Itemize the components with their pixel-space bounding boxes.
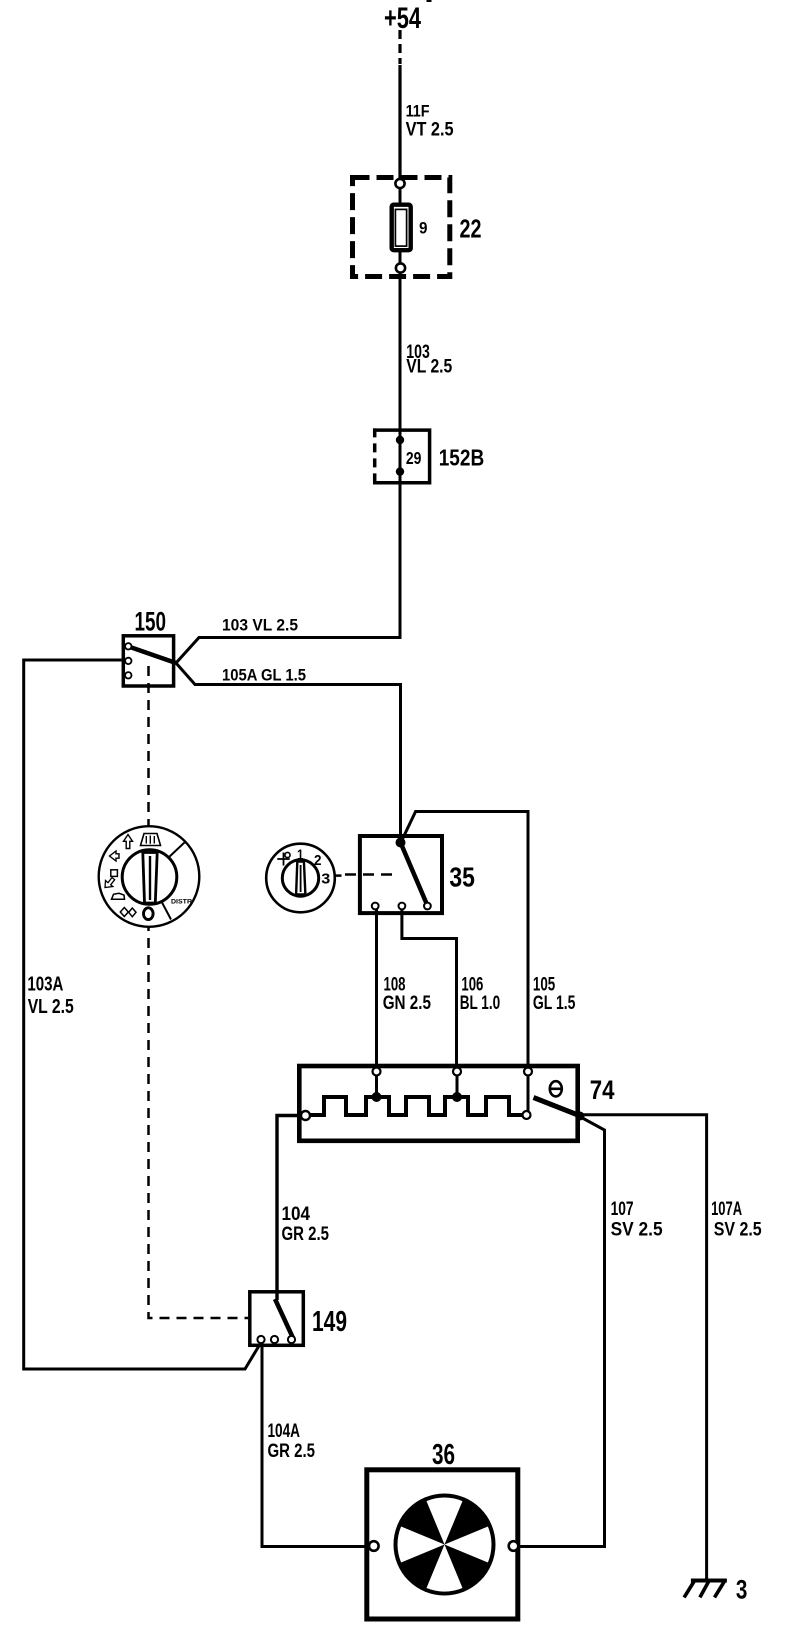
dial 0 position mark bbox=[144, 908, 154, 920]
resistor top pin a bbox=[373, 1068, 381, 1076]
fan blade white sector right bbox=[445, 1527, 492, 1563]
fan motor 36 box bbox=[367, 1470, 518, 1619]
svg-text:22: 22 bbox=[460, 214, 482, 244]
resistor left pin bbox=[301, 1111, 310, 1120]
svg-text:GN 2.5: GN 2.5 bbox=[383, 993, 432, 1014]
svg-text:149: 149 bbox=[312, 1306, 347, 1338]
switch 150 pin c bbox=[125, 672, 131, 678]
fuse element 9 bbox=[392, 205, 411, 251]
fan selector icon fan bbox=[283, 853, 285, 866]
svg-text:SV 2.5: SV 2.5 bbox=[611, 1220, 663, 1241]
fan blade white sector left bbox=[398, 1527, 445, 1563]
svg-text:BL 1.0: BL 1.0 bbox=[460, 993, 501, 1014]
junction node at 74 output bbox=[576, 1112, 585, 1121]
wire 107A from 74 to ground 3 bbox=[580, 1115, 707, 1580]
svg-text:11F: 11F bbox=[406, 102, 430, 120]
ground symbol 3 bbox=[691, 1579, 727, 1583]
svg-text:104: 104 bbox=[282, 1204, 311, 1225]
dial divider line upper right bbox=[168, 842, 185, 858]
connector 149 box bbox=[250, 1292, 303, 1346]
dial icon arrow left bbox=[110, 851, 120, 861]
connector 149 pin b bbox=[271, 1336, 278, 1343]
wire 103A loop from switch 150 left to connector 149 bbox=[24, 660, 261, 1369]
wire dashed feed from +54 bbox=[398, 30, 401, 64]
wire 107 from 74 to fan motor 36 bbox=[519, 1118, 605, 1547]
dial divider line lower right bbox=[162, 902, 172, 920]
svg-text:+54: +54 bbox=[384, 2, 421, 35]
fan blade white sector top bbox=[427, 1498, 463, 1545]
svg-text:3: 3 bbox=[321, 870, 330, 887]
switch 35 pin 1 bbox=[372, 903, 379, 910]
pin 29 upper dot of 152B bbox=[396, 436, 404, 444]
switch 150 pin a bbox=[125, 643, 131, 649]
connector 152B box (left edge dashed) bbox=[373, 430, 430, 483]
switch 35 box bbox=[360, 836, 442, 913]
resistor tap vertical to pin 105 bbox=[527, 1068, 530, 1112]
pin top of fuse 22 bbox=[395, 179, 404, 188]
resistor tap vertical to pin 106 bbox=[456, 1068, 459, 1097]
fuse box 22 dashed enclosure bbox=[353, 178, 450, 277]
svg-text:104A: 104A bbox=[268, 1421, 301, 1442]
svg-text:29: 29 bbox=[406, 448, 422, 468]
resistor tap vertical to pin 108 bbox=[375, 1068, 378, 1097]
thermal switch theta symbol bbox=[550, 1081, 562, 1096]
mechanical dashed link from switch 150 down to connector 149 bbox=[149, 666, 249, 1318]
resistor top pin c bbox=[524, 1068, 532, 1076]
dial icon arrow down-left bbox=[105, 878, 115, 888]
wire 11F from +54 to fuse 22 bbox=[398, 65, 401, 180]
svg-text:105A GL 1.5: 105A GL 1.5 bbox=[222, 666, 306, 685]
dial icon diamond pair bbox=[120, 908, 128, 917]
svg-text:GL 1.5: GL 1.5 bbox=[533, 993, 576, 1014]
dial icon arrow up bbox=[124, 835, 133, 849]
wire 105A from switch 150 to switch 35 bbox=[176, 663, 401, 843]
wire 105 from switch 35 common to resistor 74 bbox=[402, 812, 528, 1071]
connector 149 pin c bbox=[288, 1336, 295, 1343]
fan selector mechanical dashed link to switch 35 bbox=[335, 874, 342, 877]
heater control dial outer ring bbox=[99, 826, 200, 927]
resistor element (square wave) bbox=[309, 1097, 522, 1115]
fan selector knob bbox=[282, 860, 318, 896]
switch 35 pin 2 bbox=[399, 903, 406, 910]
resistor tap dot b bbox=[452, 1092, 462, 1102]
switch 150 box bbox=[123, 636, 173, 686]
switch 35 pin 3 bbox=[424, 903, 431, 910]
svg-text:9: 9 bbox=[419, 219, 428, 238]
wire 104 from resistor 74 left pin to connector 149 bbox=[277, 1116, 301, 1301]
svg-text:2: 2 bbox=[314, 852, 322, 869]
switch 35 lever bbox=[401, 843, 428, 906]
resistor element end circle bbox=[523, 1111, 531, 1119]
thermal switch lever bbox=[534, 1098, 581, 1117]
fan motor rotor disc bbox=[394, 1494, 496, 1596]
svg-text:107: 107 bbox=[611, 1199, 634, 1220]
fan motor pin left bbox=[369, 1541, 379, 1551]
fan selector outer ring bbox=[266, 844, 335, 913]
svg-text:1: 1 bbox=[297, 846, 304, 863]
svg-text:103 VL 2.5: 103 VL 2.5 bbox=[222, 616, 298, 635]
fan blade white sector bottom bbox=[427, 1545, 463, 1592]
scan tick at top edge bbox=[427, 0, 432, 2]
svg-text:35: 35 bbox=[449, 861, 475, 892]
resistor top pin b bbox=[453, 1068, 461, 1076]
wire 106 from switch 35 to resistor 74 bbox=[402, 906, 457, 1070]
svg-text:VT 2.5: VT 2.5 bbox=[406, 120, 454, 141]
fan motor pin right bbox=[509, 1541, 519, 1551]
svg-text:74: 74 bbox=[590, 1075, 615, 1105]
wire 108 from switch 35 to resistor 74 bbox=[375, 906, 378, 1070]
connector 149 pin a bbox=[257, 1336, 264, 1343]
resistor block 74 box bbox=[299, 1066, 577, 1141]
switch 35 common dot bbox=[396, 838, 406, 848]
svg-text:SV 2.5: SV 2.5 bbox=[714, 1220, 762, 1241]
svg-text:107A: 107A bbox=[711, 1199, 742, 1220]
dial knob pointer bbox=[143, 853, 157, 904]
switch 150 lever bbox=[129, 647, 177, 664]
pin bottom of fuse 22 bbox=[396, 263, 405, 272]
svg-text:150: 150 bbox=[135, 607, 167, 637]
svg-text:GR 2.5: GR 2.5 bbox=[268, 1441, 316, 1462]
connector 149 lever bbox=[275, 1299, 293, 1338]
svg-text:36: 36 bbox=[432, 1439, 455, 1471]
heater control dial knob bbox=[122, 850, 177, 905]
svg-text:3: 3 bbox=[736, 1575, 748, 1605]
wire 103 from fuse 22 through connector 152B down to switch 150 junction bbox=[176, 188, 400, 663]
svg-text:DISTR: DISTR bbox=[171, 899, 193, 906]
pin 29 lower dot of 152B bbox=[396, 467, 404, 475]
dial icon defrost (top) bbox=[141, 834, 161, 846]
svg-text:VL 2.5: VL 2.5 bbox=[28, 996, 74, 1018]
wire 104A from connector 149 to fan motor 36 bbox=[262, 1343, 371, 1547]
svg-text:103A: 103A bbox=[27, 974, 63, 996]
svg-text:GR 2.5: GR 2.5 bbox=[282, 1224, 330, 1245]
dial icon vent box bbox=[111, 870, 118, 877]
fan selector pointer bbox=[296, 862, 305, 895]
resistor tap dot a bbox=[372, 1092, 382, 1102]
dial icon floor/car bbox=[112, 893, 125, 899]
svg-text:152B: 152B bbox=[439, 445, 485, 471]
switch 150 pin b bbox=[125, 658, 131, 664]
svg-text:VL 2.5: VL 2.5 bbox=[406, 356, 452, 377]
